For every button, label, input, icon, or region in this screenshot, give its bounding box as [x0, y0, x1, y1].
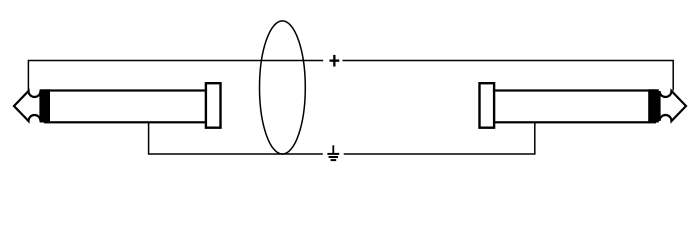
- plug P2 (right 1/4 inch TS jack) sleeve barrel: [494, 91, 656, 123]
- ground symbol (shield to earth): [327, 145, 339, 161]
- plug P2 insulator band (black ring): [648, 89, 659, 122]
- cable loop (ellipse around conductors): [260, 21, 306, 154]
- wire: bottom conductor (sleeve/shield) from plug P1 sleeve down and across to plug P2 sleeve: [149, 123, 535, 155]
- plug P1 strain-relief collar: [206, 83, 221, 128]
- label: + (hot conductor): [330, 55, 340, 67]
- plug P1 (left 1/4 inch TS jack) sleeve barrel: [45, 91, 207, 123]
- plug P1 tip (pointed contact): [14, 91, 41, 121]
- plug P1 insulator band (black ring): [40, 89, 50, 122]
- plug P2 tip (pointed contact): [660, 91, 687, 121]
- wire: top conductor (tip/+) from plug P1 tip up and across to plug P2 tip: [28, 61, 673, 92]
- plug P2 strain-relief collar: [480, 83, 495, 128]
